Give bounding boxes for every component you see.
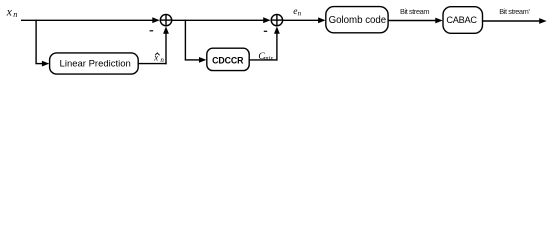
svg-text:CDCCR: CDCCR: [212, 55, 244, 65]
svg-text:Golomb code: Golomb code: [329, 15, 387, 26]
svg-text:mix: mix: [264, 55, 274, 62]
svg-text:CABAC: CABAC: [446, 15, 477, 25]
svg-text:Bit stream: Bit stream: [400, 7, 429, 16]
svg-text:n: n: [160, 56, 164, 64]
svg-text:n: n: [298, 10, 302, 18]
svg-text:x: x: [153, 53, 158, 63]
svg-text:Bit stream’: Bit stream’: [499, 7, 530, 16]
svg-text:x: x: [6, 6, 13, 18]
svg-text:n: n: [13, 10, 17, 19]
svg-text:Linear Prediction: Linear Prediction: [60, 58, 131, 69]
